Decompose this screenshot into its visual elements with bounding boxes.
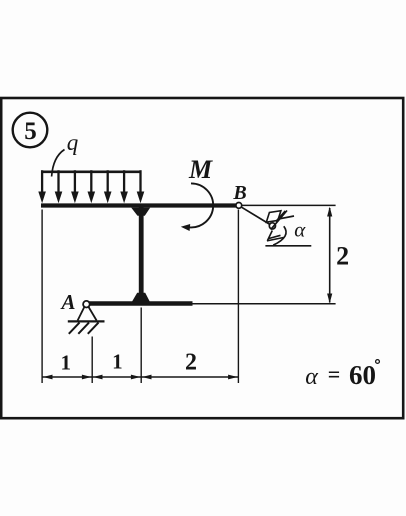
- roller support tilted shoe: [266, 211, 281, 223]
- svg-text:2: 2: [185, 350, 197, 376]
- upper beam: [41, 203, 237, 207]
- bottom dimension line: [42, 376, 238, 378]
- column bottom fillet: [131, 293, 150, 303]
- vertical column member: [139, 207, 144, 302]
- svg-text:1: 1: [112, 350, 123, 374]
- dimension extension line at x=238 below B: [237, 210, 239, 384]
- pin support A: hinge circle: [83, 301, 90, 308]
- dimension extension line at x=92: [91, 337, 93, 384]
- hinge node B: [236, 203, 242, 209]
- svg-text:2: 2: [336, 242, 349, 271]
- svg-text:q: q: [67, 130, 79, 155]
- thin line from B to right (dimension extension): [242, 204, 336, 206]
- bottom dimension arrowheads: [43, 375, 238, 380]
- pin support A: base line: [68, 320, 105, 322]
- inclined link rod from B to roller: [241, 207, 270, 225]
- roller base line: [265, 245, 311, 247]
- hatched wedge under roller: [267, 231, 284, 241]
- leader line for q: [52, 150, 65, 177]
- roller support pivot circle: [269, 223, 275, 229]
- pin support A: triangle legs: [78, 307, 97, 321]
- lower beam: [84, 301, 193, 306]
- border frame: [1, 98, 403, 418]
- roller support hatch strokes: [271, 211, 294, 230]
- equation alpha = 60 deg: [305, 360, 379, 390]
- svg-text:5: 5: [24, 118, 37, 145]
- svg-text:B: B: [232, 182, 246, 204]
- right vertical dimension line: [329, 208, 331, 303]
- thin extension of lower beam to right: [193, 303, 336, 305]
- pin support A: ground hatches: [69, 323, 99, 334]
- moment M arc with arrowhead: [181, 183, 213, 231]
- circled figure number 5: [13, 113, 48, 148]
- svg-text:=: =: [328, 362, 341, 387]
- column top fillet: [131, 208, 150, 216]
- svg-text:60: 60: [349, 360, 376, 390]
- svg-text:α: α: [305, 364, 318, 390]
- svg-text:A: A: [59, 290, 75, 314]
- angle alpha arc: [273, 226, 286, 245]
- dimension extension line at x=42: [41, 210, 43, 384]
- svg-text:M: M: [188, 155, 213, 184]
- svg-text:α: α: [294, 218, 306, 242]
- distributed load q: top bar: [41, 171, 141, 174]
- distributed load q: arrows: [38, 170, 144, 203]
- right dimension arrowheads: [327, 207, 332, 303]
- svg-text:1: 1: [61, 351, 72, 375]
- dimension extension line at x=141: [140, 308, 142, 384]
